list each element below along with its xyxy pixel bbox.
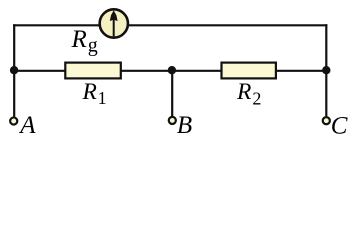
terminal A — [10, 117, 17, 124]
current source arrow — [110, 10, 118, 36]
wire B vertical — [171, 71, 173, 116]
wire top-left horizontal — [13, 24, 99, 26]
svg-text:C: C — [331, 112, 348, 139]
svg-text:A: A — [18, 112, 36, 139]
junction dot right — [322, 66, 330, 74]
wire middle rail right segment — [276, 70, 327, 72]
wire middle rail center segment — [121, 70, 223, 72]
resistor R2 — [222, 63, 276, 79]
terminal C — [323, 117, 330, 124]
junction dot left — [10, 66, 18, 74]
current source U1 (circle) — [100, 9, 128, 37]
wire left vertical — [13, 24, 15, 116]
wire middle rail left segment — [14, 70, 66, 72]
terminal B — [169, 117, 176, 124]
wire right vertical — [325, 24, 327, 116]
svg-text:B: B — [177, 112, 192, 139]
svg-text:R2: R2 — [236, 79, 261, 108]
svg-text:Rg: Rg — [71, 26, 98, 56]
resistor R1 — [65, 63, 121, 79]
wire top-right horizontal — [129, 24, 328, 26]
svg-text:R1: R1 — [82, 79, 107, 108]
junction dot middle — [168, 66, 176, 74]
